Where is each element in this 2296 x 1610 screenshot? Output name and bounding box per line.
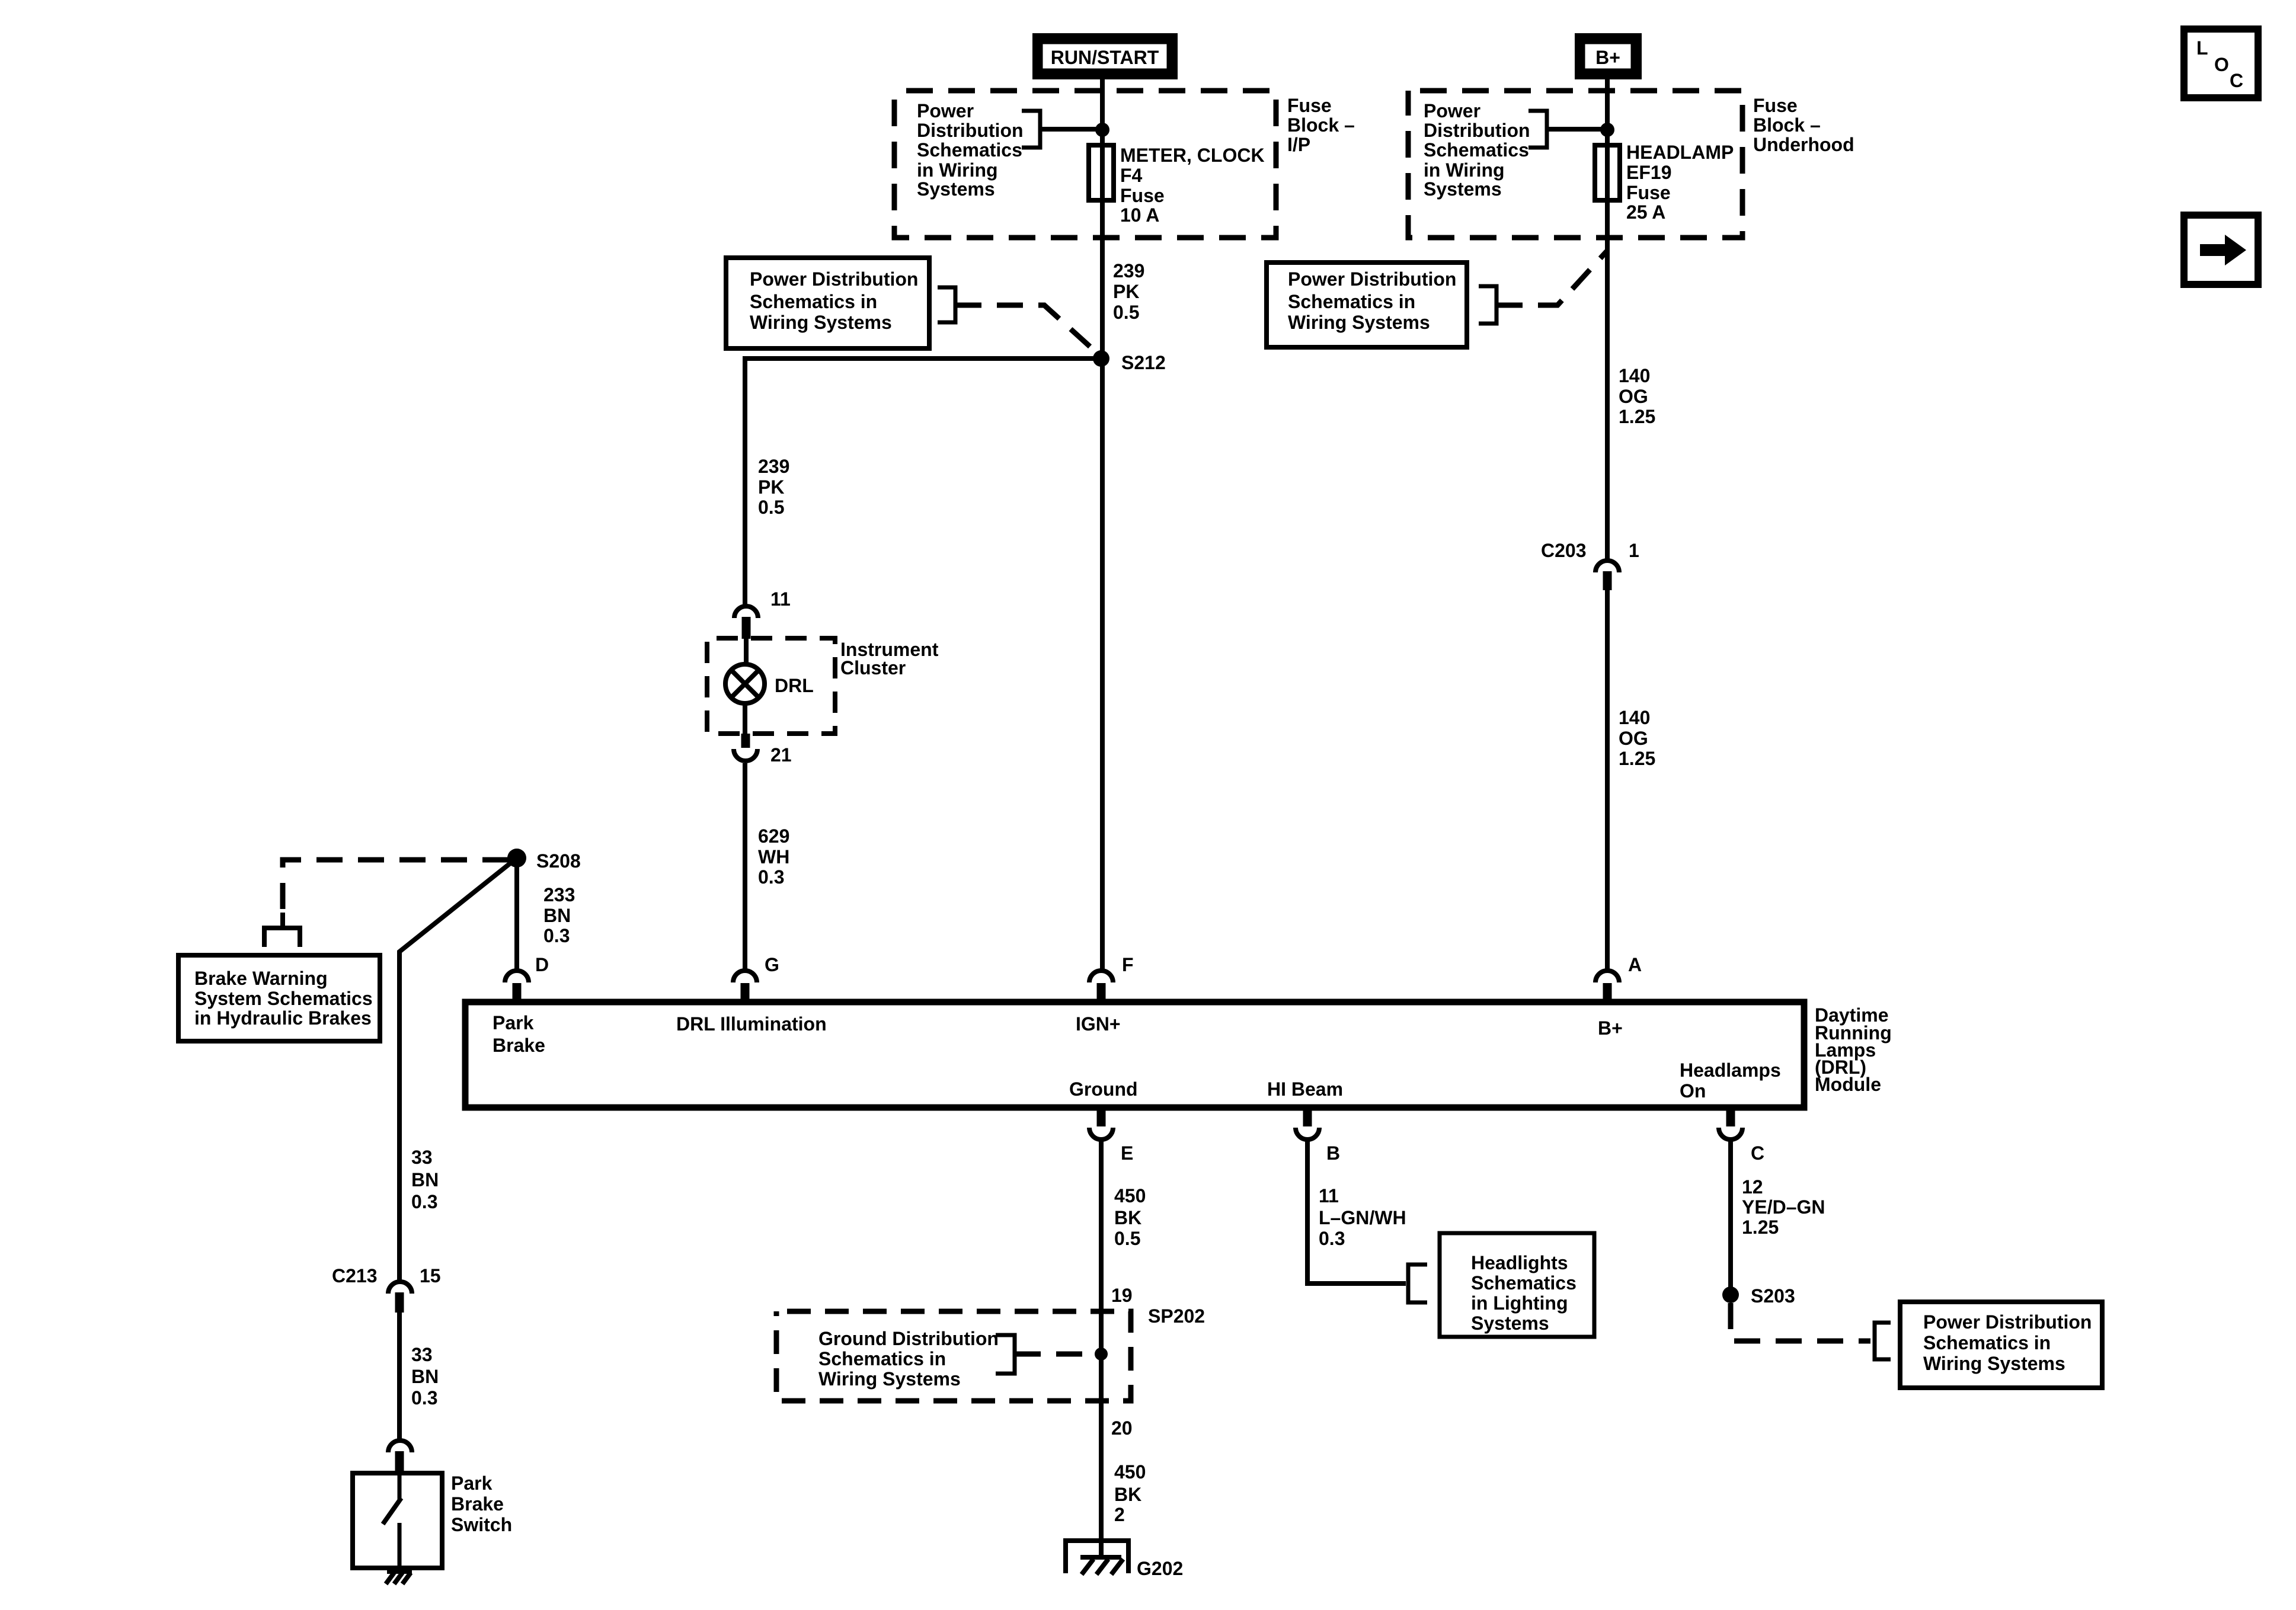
- svg-text:0.3: 0.3: [1319, 1228, 1345, 1249]
- pin B: [1296, 1106, 1340, 1164]
- svg-text:Wiring Systems: Wiring Systems: [750, 312, 892, 333]
- svg-text:Headlamps: Headlamps: [1680, 1060, 1781, 1081]
- label Park Brake (module): [493, 1012, 545, 1056]
- splice S203: [1722, 1286, 1739, 1303]
- svg-text:Power Distribution: Power Distribution: [1288, 268, 1456, 290]
- fuse F4: [1089, 145, 1114, 200]
- svg-text:B+: B+: [1598, 1017, 1623, 1039]
- DRL module box: [465, 1002, 1804, 1108]
- svg-text:Distribution: Distribution: [917, 120, 1024, 141]
- dashed reference line to S212: [955, 305, 1101, 357]
- svg-text:Distribution: Distribution: [1424, 120, 1530, 141]
- label 12 YE/D-GN 1.25: [1742, 1176, 1825, 1238]
- svg-text:IGN+: IGN+: [1076, 1013, 1121, 1035]
- svg-text:1.25: 1.25: [1742, 1217, 1779, 1238]
- svg-text:in Hydraulic Brakes: in Hydraulic Brakes: [194, 1007, 372, 1029]
- svg-text:1.25: 1.25: [1619, 406, 1655, 427]
- svg-text:Wiring Systems: Wiring Systems: [1288, 312, 1430, 333]
- terminal RUN/START: [1037, 37, 1173, 75]
- svg-text:B+: B+: [1595, 47, 1620, 68]
- svg-text:Systems: Systems: [917, 178, 995, 200]
- park brake switch box: [353, 1473, 442, 1568]
- svg-text:Schematics: Schematics: [917, 139, 1022, 161]
- svg-text:Cluster: Cluster: [840, 657, 906, 678]
- bracket (ground distribution ref): [996, 1335, 1015, 1374]
- svg-text:Power Distribution: Power Distribution: [750, 268, 918, 290]
- wire RUN/START to fuse F4: [1100, 79, 1105, 970]
- label 233 BN 0.3: [543, 884, 575, 946]
- pin G: [733, 954, 779, 1004]
- note box Power Distribution Schematics in Wiring Systems (left): [726, 258, 929, 348]
- instrument cluster dashed box: [707, 638, 835, 734]
- label 11 L-GN/WH 0.3: [1319, 1185, 1406, 1249]
- svg-text:Wiring Systems: Wiring Systems: [818, 1368, 961, 1390]
- label HEADLAMP EF19 Fuse 25 A: [1626, 142, 1734, 223]
- label 33 BN 0.3 (upper): [411, 1147, 439, 1212]
- svg-text:HI Beam: HI Beam: [1267, 1078, 1343, 1100]
- bracket (headlights ref): [1408, 1265, 1427, 1302]
- label Headlamps On: [1680, 1060, 1781, 1102]
- svg-text:Fuse: Fuse: [1287, 95, 1332, 116]
- svg-text:L: L: [2196, 37, 2208, 59]
- switch blade: [383, 1475, 401, 1571]
- junction dot on RUN/START feed: [1095, 123, 1109, 137]
- svg-text:Underhood: Underhood: [1753, 134, 1854, 155]
- note box Power Distribution Schematics in Wiring Systems (right): [1267, 263, 1467, 347]
- svg-text:Schematics in: Schematics in: [750, 291, 877, 312]
- splice S212: [1093, 350, 1109, 367]
- svg-text:G202: G202: [1137, 1558, 1183, 1579]
- svg-text:YE/D–GN: YE/D–GN: [1742, 1196, 1825, 1218]
- svg-text:450: 450: [1114, 1185, 1146, 1206]
- bracket (left ref): [938, 287, 955, 322]
- svg-text:Fuse: Fuse: [1753, 95, 1798, 116]
- svg-text:0.3: 0.3: [411, 1387, 437, 1409]
- svg-text:S212: S212: [1121, 352, 1166, 373]
- svg-text:Schematics: Schematics: [1471, 1272, 1576, 1294]
- svg-text:C203: C203: [1541, 540, 1587, 561]
- fuse block I/P dashed box: [894, 91, 1276, 238]
- svg-text:239: 239: [1113, 260, 1144, 281]
- svg-text:25 A: 25 A: [1626, 201, 1665, 223]
- label 140 OG 1.25 (upper): [1619, 365, 1655, 427]
- svg-text:RUN/START: RUN/START: [1051, 47, 1159, 68]
- label 629 WH 0.3: [758, 825, 789, 888]
- svg-text:1.25: 1.25: [1619, 748, 1655, 769]
- wire into DRL lamp: [744, 639, 749, 664]
- svg-text:Switch: Switch: [451, 1514, 512, 1535]
- connector C203 pin 1: [1595, 561, 1619, 590]
- note box Headlights Schematics in Lighting Systems: [1440, 1233, 1594, 1337]
- pin E: [1089, 1106, 1133, 1164]
- pin F: [1089, 954, 1134, 1004]
- wire pin B to headlights ref: [1307, 1140, 1406, 1283]
- svg-text:On: On: [1680, 1080, 1706, 1102]
- svg-text:0.3: 0.3: [758, 866, 784, 888]
- wire bracket to RUN/START feed: [1040, 127, 1102, 132]
- svg-text:Brake Warning: Brake Warning: [194, 968, 328, 989]
- svg-text:0.5: 0.5: [1113, 302, 1139, 323]
- bracket (right ref): [1479, 286, 1496, 324]
- svg-text:10 A: 10 A: [1120, 204, 1159, 226]
- svg-text:C213: C213: [332, 1265, 378, 1286]
- svg-text:SP202: SP202: [1148, 1305, 1205, 1327]
- svg-text:0.5: 0.5: [758, 497, 784, 518]
- svg-text:450: 450: [1114, 1461, 1146, 1483]
- svg-text:1: 1: [1629, 540, 1639, 561]
- wire lamp to pin 21: [743, 703, 747, 734]
- svg-text:BN: BN: [411, 1366, 439, 1387]
- svg-text:Power: Power: [1424, 100, 1480, 121]
- junction dot on B+ feed: [1600, 123, 1614, 137]
- wire pin 21 to pin G: [743, 763, 747, 970]
- svg-text:METER, CLOCK: METER, CLOCK: [1120, 145, 1265, 166]
- note Power Distribution Schematics in Wiring Systems (I/P fuse block): [917, 100, 1024, 200]
- svg-text:0.3: 0.3: [411, 1191, 437, 1212]
- svg-text:OG: OG: [1619, 728, 1648, 749]
- svg-text:12: 12: [1742, 1176, 1763, 1198]
- ground (park brake switch): [386, 1571, 412, 1584]
- svg-text:S203: S203: [1751, 1285, 1795, 1307]
- svg-text:239: 239: [758, 456, 789, 477]
- pin D: [505, 954, 549, 1004]
- svg-text:Ground: Ground: [1069, 1078, 1138, 1100]
- svg-text:Power: Power: [917, 100, 974, 121]
- svg-text:in Wiring: in Wiring: [917, 159, 998, 181]
- svg-text:S208: S208: [536, 850, 581, 872]
- dashed reference line to B+ wire: [1496, 251, 1607, 305]
- label Instrument Cluster: [840, 639, 939, 678]
- label 33 BN 0.3 (lower): [411, 1344, 439, 1409]
- svg-text:Block –: Block –: [1753, 114, 1821, 136]
- svg-text:O: O: [2214, 54, 2229, 75]
- svg-text:140: 140: [1619, 707, 1650, 728]
- svg-text:Park: Park: [493, 1012, 534, 1033]
- label 450 BK 0.5: [1114, 1185, 1146, 1249]
- svg-text:BK: BK: [1114, 1484, 1141, 1505]
- svg-text:L–GN/WH: L–GN/WH: [1319, 1207, 1406, 1228]
- label 239 PK 0.5 (ign feed): [1113, 260, 1144, 323]
- svg-text:in Wiring: in Wiring: [1424, 159, 1505, 181]
- LOC indicator box: [2184, 29, 2258, 98]
- note Ground Distribution Schematics in Wiring Systems: [818, 1328, 999, 1390]
- label 140 OG 1.25 (lower): [1619, 707, 1655, 769]
- svg-text:Block –: Block –: [1287, 114, 1355, 136]
- note Power Distribution Schematics in Wiring Systems (underhood fuse block): [1424, 100, 1530, 200]
- svg-text:20: 20: [1111, 1417, 1133, 1439]
- svg-text:B: B: [1326, 1142, 1340, 1164]
- svg-text:G: G: [765, 954, 779, 975]
- svg-text:BK: BK: [1114, 1207, 1141, 1228]
- dashed reference line from S203: [1731, 1303, 1870, 1341]
- wire S208 diagonal to park brake branch: [399, 858, 517, 1282]
- label METER, CLOCK F4 Fuse 10 A: [1120, 145, 1265, 226]
- arrow box: [2184, 215, 2258, 284]
- wire S208 to pin D: [514, 858, 519, 970]
- note box Power Distribution Schematics in Wiring Systems (bottom right): [1900, 1302, 2102, 1388]
- svg-text:Ground Distribution: Ground Distribution: [818, 1328, 999, 1349]
- svg-text:System Schematics: System Schematics: [194, 988, 373, 1009]
- svg-text:Wiring Systems: Wiring Systems: [1923, 1353, 2065, 1374]
- ground G202: [1066, 1541, 1128, 1574]
- svg-text:0.5: 0.5: [1114, 1228, 1140, 1249]
- label 239 PK 0.5 (left branch): [758, 456, 789, 518]
- label Daytime Running Lamps (DRL) Module: [1815, 1004, 1892, 1095]
- svg-text:Module: Module: [1815, 1074, 1881, 1095]
- dashed reference line from S208 to brake warning: [283, 860, 509, 916]
- svg-text:Schematics in: Schematics in: [1288, 291, 1415, 312]
- svg-text:E: E: [1121, 1142, 1133, 1164]
- label Fuse Block - I/P: [1287, 95, 1355, 155]
- svg-text:Schematics: Schematics: [1424, 139, 1529, 161]
- svg-text:PK: PK: [758, 476, 784, 498]
- svg-text:WH: WH: [758, 846, 789, 868]
- pin C: [1719, 1106, 1764, 1164]
- svg-text:Fuse: Fuse: [1120, 185, 1165, 206]
- wire C203 to pin A: [1605, 590, 1610, 970]
- svg-text:11: 11: [770, 588, 791, 610]
- connector pin 11: [734, 606, 758, 639]
- connector pin 21: [734, 734, 757, 761]
- svg-text:DRL Illumination: DRL Illumination: [676, 1013, 827, 1035]
- svg-text:Fuse: Fuse: [1626, 182, 1671, 203]
- svg-text:19: 19: [1111, 1285, 1133, 1306]
- svg-text:F4: F4: [1120, 165, 1143, 186]
- svg-text:140: 140: [1619, 365, 1650, 386]
- svg-text:21: 21: [770, 744, 792, 766]
- DRL indicator lamp: [725, 664, 765, 703]
- junction dot SP202: [1095, 1347, 1108, 1361]
- svg-text:Park: Park: [451, 1473, 493, 1494]
- wire pin C to S203: [1728, 1140, 1733, 1295]
- svg-text:PK: PK: [1113, 281, 1139, 302]
- svg-text:DRL: DRL: [775, 675, 814, 696]
- svg-text:BN: BN: [543, 905, 571, 926]
- note box Brake Warning System Schematics in Hydraulic Brakes: [178, 955, 380, 1041]
- wire C213 to park brake switch: [397, 1313, 402, 1441]
- terminal B+: [1579, 37, 1638, 75]
- connector at park brake switch: [388, 1441, 412, 1474]
- wire B+ to fuse EF19: [1605, 79, 1610, 561]
- svg-text:15: 15: [420, 1265, 441, 1286]
- svg-text:11: 11: [1319, 1185, 1339, 1206]
- svg-text:EF19: EF19: [1626, 162, 1671, 183]
- pin A: [1595, 954, 1642, 1004]
- label Fuse Block - Underhood: [1753, 95, 1854, 155]
- svg-text:Brake: Brake: [493, 1035, 545, 1056]
- svg-text:C: C: [2230, 70, 2243, 91]
- svg-text:33: 33: [411, 1147, 433, 1168]
- svg-text:233: 233: [543, 884, 575, 905]
- wire S212 to instrument cluster: [745, 359, 1101, 606]
- svg-text:Schematics in: Schematics in: [1923, 1332, 2051, 1353]
- svg-text:in Lighting: in Lighting: [1471, 1292, 1568, 1314]
- splice S208: [507, 849, 526, 868]
- svg-text:C: C: [1751, 1142, 1764, 1164]
- bracket (power distribution ref bottom right): [1875, 1323, 1891, 1359]
- connector C213 pin 15: [388, 1282, 412, 1313]
- fuse block Underhood dashed box: [1408, 91, 1742, 238]
- svg-text:Schematics in: Schematics in: [818, 1348, 946, 1369]
- bracket (I/P fuse block ref): [1022, 111, 1040, 148]
- svg-text:BN: BN: [411, 1169, 439, 1190]
- fork symbol: [264, 913, 300, 947]
- svg-text:OG: OG: [1619, 386, 1648, 407]
- svg-text:Systems: Systems: [1424, 178, 1502, 200]
- svg-text:I/P: I/P: [1287, 134, 1310, 155]
- label Park Brake Switch: [451, 1473, 512, 1535]
- svg-text:2: 2: [1114, 1504, 1125, 1525]
- bracket (underhood fuse block ref): [1528, 111, 1547, 148]
- wire pin E to G202: [1099, 1140, 1104, 1557]
- splice SP202 dashed box: [776, 1311, 1131, 1401]
- label 450 BK 2: [1114, 1461, 1146, 1525]
- svg-text:F: F: [1122, 954, 1134, 975]
- wire bracket to B+ feed: [1547, 127, 1607, 132]
- svg-text:0.3: 0.3: [543, 925, 570, 946]
- svg-text:33: 33: [411, 1344, 433, 1365]
- fuse EF19: [1595, 145, 1620, 200]
- svg-text:Systems: Systems: [1471, 1313, 1549, 1334]
- svg-text:D: D: [535, 954, 549, 975]
- svg-text:A: A: [1628, 954, 1642, 975]
- svg-text:Power Distribution: Power Distribution: [1923, 1311, 2092, 1333]
- dashed reference line to SP202: [1015, 1352, 1098, 1357]
- svg-text:629: 629: [758, 825, 789, 847]
- svg-text:HEADLAMP: HEADLAMP: [1626, 142, 1734, 163]
- svg-text:Headlights: Headlights: [1471, 1252, 1568, 1273]
- svg-text:Brake: Brake: [451, 1493, 504, 1515]
